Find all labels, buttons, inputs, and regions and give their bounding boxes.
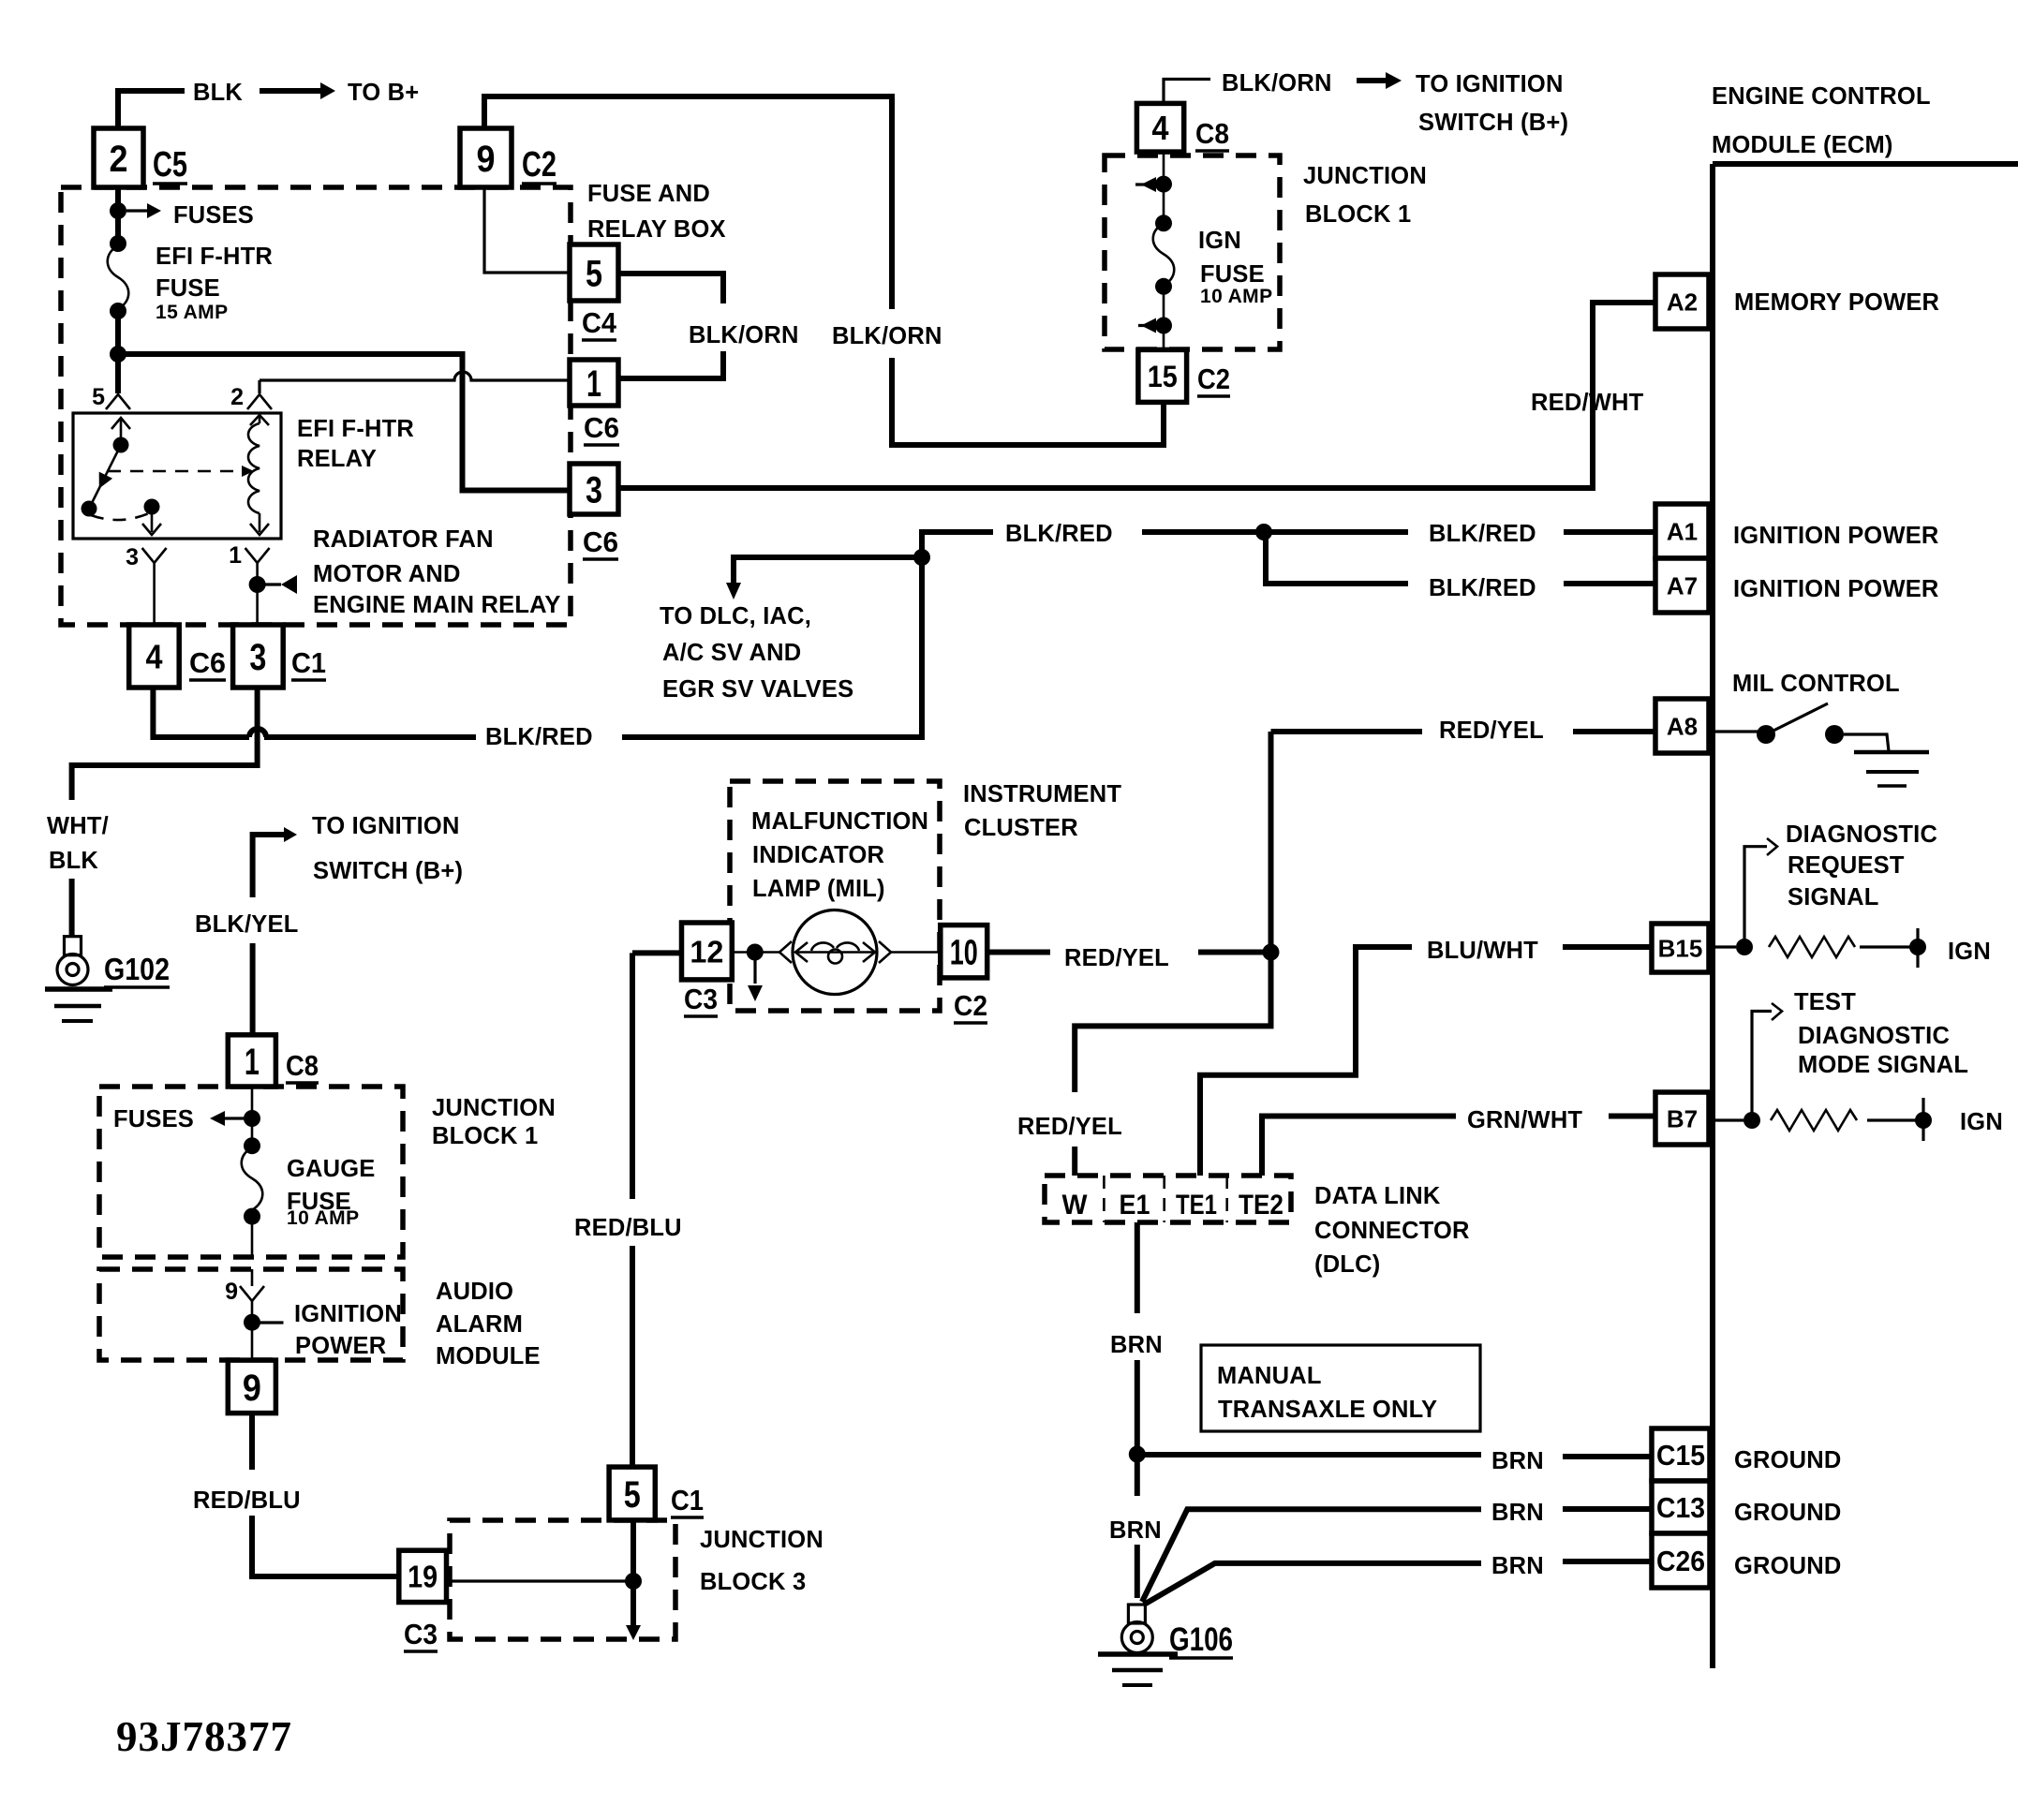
svg-text:C4: C4	[582, 306, 617, 339]
svg-text:REQUEST: REQUEST	[1788, 852, 1905, 879]
svg-text:C15: C15	[1656, 1439, 1705, 1472]
svg-text:RELAY: RELAY	[297, 446, 377, 472]
svg-text:IGN: IGN	[1948, 939, 1991, 965]
svg-text:19: 19	[408, 1560, 438, 1594]
svg-text:BRN: BRN	[1491, 1448, 1544, 1474]
svg-text:1: 1	[245, 1042, 260, 1083]
svg-text:BLOCK 3: BLOCK 3	[700, 1569, 806, 1595]
svg-text:IGNITION POWER: IGNITION POWER	[1733, 576, 1939, 602]
svg-text:C1: C1	[291, 646, 326, 679]
svg-text:SWITCH (B+): SWITCH (B+)	[1418, 110, 1568, 136]
svg-text:BLK/YEL: BLK/YEL	[195, 911, 299, 938]
svg-text:GRN/WHT: GRN/WHT	[1467, 1107, 1582, 1133]
svg-text:15: 15	[1148, 360, 1178, 393]
svg-text:TO DLC, IAC,: TO DLC, IAC,	[660, 603, 811, 629]
svg-text:FUSES: FUSES	[173, 202, 254, 229]
svg-text:BLK/RED: BLK/RED	[485, 724, 593, 750]
svg-text:1: 1	[586, 363, 601, 405]
svg-text:BLK/RED: BLK/RED	[1005, 521, 1113, 547]
svg-text:BLK/ORN: BLK/ORN	[689, 322, 799, 348]
svg-text:TO IGNITION: TO IGNITION	[1416, 71, 1564, 97]
svg-text:INDICATOR: INDICATOR	[752, 842, 884, 868]
svg-text:POWER: POWER	[295, 1333, 386, 1359]
svg-text:W: W	[1062, 1190, 1089, 1221]
svg-text:FUSE: FUSE	[156, 275, 220, 302]
svg-text:10 AMP: 10 AMP	[287, 1207, 359, 1229]
svg-text:9: 9	[225, 1279, 238, 1305]
svg-text:4: 4	[145, 637, 162, 675]
svg-text:RED/YEL: RED/YEL	[1439, 718, 1544, 744]
svg-text:MIL CONTROL: MIL CONTROL	[1732, 671, 1900, 697]
svg-text:G102: G102	[104, 952, 170, 986]
svg-text:MALFUNCTION: MALFUNCTION	[751, 808, 928, 835]
svg-text:EFI F-HTR: EFI F-HTR	[297, 416, 414, 442]
svg-text:RELAY BOX: RELAY BOX	[587, 216, 726, 243]
svg-text:C8: C8	[286, 1049, 319, 1082]
svg-text:BLK/RED: BLK/RED	[1429, 575, 1536, 601]
svg-text:MODE SIGNAL: MODE SIGNAL	[1798, 1052, 1968, 1078]
svg-text:FUSE: FUSE	[1200, 261, 1265, 288]
svg-text:BLK: BLK	[193, 80, 243, 106]
svg-text:IGNITION: IGNITION	[294, 1301, 402, 1327]
svg-text:3: 3	[249, 637, 266, 678]
svg-text:1: 1	[229, 542, 242, 569]
svg-text:IGN: IGN	[1960, 1109, 2003, 1135]
svg-text:EFI F-HTR: EFI F-HTR	[156, 244, 273, 270]
svg-text:A2: A2	[1667, 288, 1698, 316]
svg-text:15 AMP: 15 AMP	[156, 302, 228, 323]
svg-text:GAUGE: GAUGE	[287, 1156, 376, 1182]
svg-text:EGR SV VALVES: EGR SV VALVES	[662, 676, 853, 703]
svg-text:WHT/: WHT/	[47, 813, 109, 839]
svg-text:MANUAL: MANUAL	[1217, 1363, 1322, 1389]
svg-text:BLK/ORN: BLK/ORN	[832, 323, 942, 349]
svg-text:G106: G106	[1169, 1621, 1233, 1658]
svg-text:FUSE AND: FUSE AND	[587, 181, 710, 207]
svg-text:2: 2	[230, 384, 244, 410]
svg-text:ENGINE CONTROL: ENGINE CONTROL	[1712, 83, 1931, 110]
svg-text:3: 3	[126, 544, 139, 570]
svg-text:BRN: BRN	[1110, 1332, 1163, 1358]
svg-text:RED/BLU: RED/BLU	[193, 1487, 301, 1514]
svg-text:C8: C8	[1195, 117, 1229, 150]
svg-text:A8: A8	[1667, 712, 1698, 740]
svg-text:C13: C13	[1656, 1491, 1705, 1524]
svg-text:RED/YEL: RED/YEL	[1064, 945, 1169, 971]
svg-text:E1: E1	[1120, 1190, 1150, 1221]
svg-text:BLOCK 1: BLOCK 1	[1305, 201, 1411, 228]
svg-text:A1: A1	[1667, 517, 1698, 545]
svg-text:10 AMP: 10 AMP	[1200, 286, 1272, 307]
svg-text:LAMP (MIL): LAMP (MIL)	[752, 876, 885, 902]
svg-text:BLOCK 1: BLOCK 1	[432, 1123, 538, 1149]
svg-text:TE2: TE2	[1239, 1190, 1284, 1221]
svg-text:3: 3	[586, 469, 602, 510]
svg-text:RED/WHT: RED/WHT	[1531, 390, 1644, 416]
svg-text:B7: B7	[1667, 1104, 1698, 1132]
svg-text:10: 10	[950, 933, 978, 972]
svg-text:ALARM: ALARM	[436, 1311, 523, 1338]
svg-text:A7: A7	[1667, 571, 1698, 599]
svg-text:TO B+: TO B+	[348, 80, 419, 106]
svg-text:BRN: BRN	[1491, 1500, 1544, 1526]
svg-text:DIAGNOSTIC: DIAGNOSTIC	[1786, 821, 1937, 848]
svg-text:TRANSAXLE ONLY: TRANSAXLE ONLY	[1218, 1397, 1437, 1423]
svg-text:IGNITION POWER: IGNITION POWER	[1733, 523, 1939, 549]
svg-text:C6: C6	[583, 525, 618, 558]
svg-text:C26: C26	[1656, 1545, 1705, 1577]
svg-text:TEST: TEST	[1794, 989, 1856, 1015]
svg-text:BLK: BLK	[49, 848, 98, 874]
svg-text:IGN: IGN	[1198, 228, 1241, 254]
svg-text:9: 9	[477, 139, 496, 180]
svg-text:JUNCTION: JUNCTION	[1303, 163, 1427, 189]
svg-text:C2: C2	[522, 145, 556, 185]
svg-text:INSTRUMENT: INSTRUMENT	[963, 781, 1121, 807]
svg-text:9: 9	[243, 1368, 261, 1409]
svg-text:5: 5	[92, 384, 105, 410]
svg-text:CONNECTOR: CONNECTOR	[1314, 1218, 1470, 1244]
svg-text:BLU/WHT: BLU/WHT	[1427, 938, 1538, 964]
svg-text:GROUND: GROUND	[1734, 1500, 1842, 1526]
svg-text:C3: C3	[684, 983, 718, 1015]
svg-text:MODULE: MODULE	[436, 1343, 541, 1369]
svg-text:DIAGNOSTIC: DIAGNOSTIC	[1798, 1023, 1950, 1049]
svg-text:JUNCTION: JUNCTION	[432, 1095, 556, 1121]
svg-text:FUSES: FUSES	[113, 1106, 194, 1132]
svg-text:A/C SV AND: A/C SV AND	[662, 640, 801, 666]
svg-text:(DLC): (DLC)	[1314, 1251, 1380, 1278]
svg-text:BLK/RED: BLK/RED	[1429, 521, 1536, 547]
svg-text:AUDIO: AUDIO	[436, 1279, 513, 1305]
svg-text:C1: C1	[671, 1484, 704, 1517]
svg-text:MEMORY POWER: MEMORY POWER	[1734, 289, 1939, 316]
svg-text:TE1: TE1	[1176, 1190, 1217, 1221]
svg-text:RED/BLU: RED/BLU	[574, 1215, 682, 1241]
svg-text:BRN: BRN	[1109, 1517, 1162, 1544]
svg-text:TO IGNITION: TO IGNITION	[312, 813, 460, 839]
svg-text:BLK/ORN: BLK/ORN	[1222, 70, 1332, 96]
svg-text:C6: C6	[189, 646, 226, 679]
svg-text:DATA LINK: DATA LINK	[1314, 1183, 1441, 1209]
svg-text:SWITCH (B+): SWITCH (B+)	[313, 858, 463, 884]
svg-text:C3: C3	[404, 1618, 438, 1650]
svg-text:MODULE (ECM): MODULE (ECM)	[1712, 132, 1893, 158]
svg-text:C6: C6	[584, 411, 619, 444]
svg-text:RED/YEL: RED/YEL	[1017, 1114, 1122, 1140]
svg-text:5: 5	[624, 1474, 641, 1516]
svg-text:ENGINE MAIN RELAY: ENGINE MAIN RELAY	[313, 592, 561, 618]
svg-text:GROUND: GROUND	[1734, 1553, 1842, 1579]
svg-text:GROUND: GROUND	[1734, 1447, 1842, 1473]
svg-text:BRN: BRN	[1491, 1553, 1544, 1579]
svg-text:5: 5	[586, 253, 602, 294]
svg-text:MOTOR AND: MOTOR AND	[313, 561, 461, 587]
svg-text:12: 12	[690, 934, 723, 969]
svg-text:JUNCTION: JUNCTION	[700, 1527, 824, 1553]
svg-text:CLUSTER: CLUSTER	[964, 815, 1078, 841]
svg-text:2: 2	[110, 139, 128, 180]
svg-text:C2: C2	[1197, 363, 1230, 395]
svg-text:C2: C2	[954, 989, 987, 1022]
svg-text:RADIATOR FAN: RADIATOR FAN	[313, 526, 494, 553]
svg-text:SIGNAL: SIGNAL	[1788, 884, 1879, 910]
svg-text:B15: B15	[1658, 934, 1703, 962]
svg-text:93J78377: 93J78377	[116, 1713, 292, 1760]
svg-text:4: 4	[1152, 109, 1169, 147]
svg-text:C5: C5	[153, 145, 187, 185]
